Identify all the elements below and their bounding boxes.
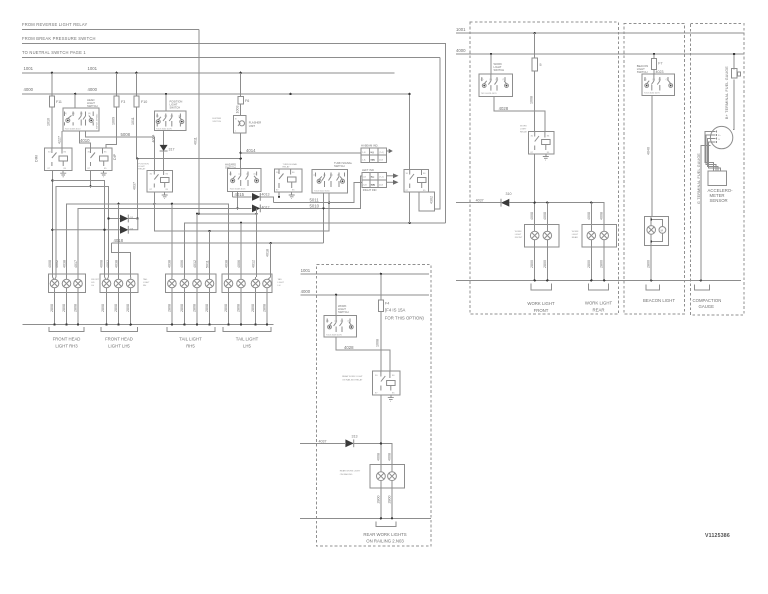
- svg-text:(6): (6): [88, 113, 91, 115]
- svg-text:(2): (2): [335, 321, 338, 323]
- wire 4018 drop group4: [270, 243, 272, 277]
- lamp L2 g1: [62, 277, 71, 288]
- svg-text:(3): (3): [496, 79, 499, 81]
- wire 4227: [61, 131, 63, 148]
- wire 4038 drop group2: [118, 204, 120, 277]
- svg-text:DIM: DIM: [35, 155, 39, 162]
- wire 1010: [51, 107, 53, 148]
- svg-text:REAR WORK LIGHTS: REAR WORK LIGHTS: [363, 532, 406, 537]
- svg-text:GAUGE: GAUGE: [699, 304, 715, 309]
- wire lamp returns 2808 group3: [172, 288, 210, 325]
- wire beacon internal top: [651, 217, 662, 227]
- svg-text:(1): (1): [348, 321, 351, 323]
- switch head light S1 internal pins: [65, 112, 94, 126]
- wire relay K5 output: [409, 192, 411, 223]
- node junction 4038 group3: [171, 203, 173, 205]
- node junction K3 on 4038 line: [153, 203, 155, 205]
- node junctions right ground: [534, 279, 703, 281]
- relay K4 turn signal: [275, 169, 302, 192]
- svg-text:(7-4): (7-4): [379, 177, 384, 179]
- switch position light S2 internal pins: [157, 114, 182, 127]
- diode D9: [52, 219, 137, 234]
- svg-text:2808: 2808: [180, 304, 184, 312]
- svg-text:FLASHER: FLASHER: [249, 121, 261, 125]
- svg-text:TAIL: TAIL: [278, 278, 283, 281]
- svg-text:5: 5: [540, 63, 542, 67]
- svg-text:2808: 2808: [62, 304, 66, 312]
- svg-text:WORK LIGHT: WORK LIGHT: [527, 301, 555, 306]
- svg-text:2808: 2808: [74, 304, 78, 312]
- svg-text:REAR: REAR: [593, 307, 605, 312]
- node junction 4002 tee: [89, 185, 91, 187]
- lamp L7 g3: [168, 277, 177, 288]
- wire 4002 distribution: [56, 186, 109, 277]
- svg-text:RIGHT IND: RIGHT IND: [363, 188, 377, 192]
- diode 317: [160, 145, 175, 152]
- node junction 4037 relay K7: [534, 202, 536, 204]
- svg-text:2808: 2808: [126, 304, 130, 312]
- svg-text:COMPACTION: COMPACTION: [693, 298, 722, 303]
- wire fuse F7 to switch: [653, 70, 655, 74]
- fuse F11: [51, 73, 53, 96]
- connector left right indicator body: [362, 173, 387, 188]
- wire turn switch pin to 5011: [323, 193, 325, 243]
- svg-text:(2): (2): [239, 174, 242, 176]
- svg-text:4037: 4037: [133, 182, 137, 190]
- bracket work light front: [531, 284, 551, 290]
- svg-text:G: G: [718, 139, 720, 141]
- svg-text:2808: 2808: [205, 304, 209, 312]
- fuse F4: [380, 274, 382, 300]
- wire 4028 mid: [336, 337, 390, 371]
- wire F left tail to group2 lamp3: [112, 243, 131, 277]
- node junction 4037 relay wire: [380, 442, 382, 444]
- svg-text:7013 4004 4070: 7013 4004 4070: [156, 128, 173, 130]
- wire bus 4000: [22, 94, 410, 170]
- wire 4037 stub mid: [300, 443, 392, 472]
- node junction 4011 on bus C: [198, 213, 200, 215]
- svg-text:4006: 4006: [237, 260, 241, 268]
- svg-text:F10: F10: [141, 100, 147, 104]
- svg-text:5011: 5011: [310, 198, 320, 203]
- svg-text:7013 4028 4070: 7013 4028 4070: [326, 334, 343, 336]
- svg-text:317: 317: [169, 148, 175, 152]
- svg-text:TO NUETRAL SWITCH PAGE 1: TO NUETRAL SWITCH PAGE 1: [22, 50, 86, 55]
- svg-text:(4): (4): [326, 321, 329, 323]
- svg-text:G TERMINAL FUEL GAUGE: G TERMINAL FUEL GAUGE: [697, 153, 701, 204]
- svg-text:RELAY: RELAY: [283, 165, 291, 168]
- lamp L11 g4: [224, 277, 233, 288]
- svg-text:F7: F7: [658, 62, 662, 66]
- lamp L3 g1: [74, 277, 83, 288]
- relay K4 turn signal label: [283, 163, 298, 169]
- svg-text:SWITCH: SWITCH: [637, 70, 648, 74]
- lamp L12 g4: [237, 277, 246, 288]
- svg-text:HD: HD: [91, 282, 95, 284]
- svg-text:LH: LH: [91, 285, 94, 287]
- svg-text:TAIL: TAIL: [143, 278, 148, 281]
- svg-text:4000: 4000: [88, 87, 98, 92]
- label front hd lh side: [91, 279, 99, 287]
- svg-text:5010: 5010: [310, 204, 320, 209]
- svg-text:4008: 4008: [99, 260, 103, 268]
- svg-text:4013: 4013: [262, 193, 270, 197]
- relay K1 DIM: [35, 148, 73, 170]
- svg-text:2-A: 2-A: [362, 159, 366, 162]
- svg-text:(1): (1): [337, 175, 340, 177]
- svg-text:FOR THIS OPTION): FOR THIS OPTION): [385, 315, 425, 320]
- flasher unit U1 body: [234, 115, 246, 133]
- svg-text:2808: 2808: [167, 304, 171, 312]
- svg-text:2800: 2800: [647, 260, 651, 268]
- svg-text:4008: 4008: [48, 260, 52, 268]
- svg-text:4037: 4037: [476, 199, 484, 203]
- ground relay K2: [101, 173, 107, 177]
- wire ground bus right: [456, 279, 741, 281]
- node junction mid ground b: [391, 517, 393, 519]
- svg-text:4023: 4023: [656, 70, 664, 74]
- svg-text:4302: 4302: [430, 196, 434, 204]
- node junction hazard pin2: [236, 207, 238, 209]
- svg-text:TAIL LIGHT: TAIL LIGHT: [236, 337, 259, 342]
- svg-text:4008: 4008: [543, 212, 547, 220]
- node junction F5 on 1001: [534, 32, 536, 34]
- wire feed work switch R: [490, 54, 492, 74]
- svg-text:ON RAILING: ON RAILING: [340, 473, 353, 476]
- node junction 4037 tap: [136, 158, 138, 160]
- svg-text:4000: 4000: [24, 87, 34, 92]
- lamp L13 g4: [251, 277, 260, 288]
- svg-text:DIP: DIP: [113, 153, 117, 160]
- node junction g3 5011 on E: [208, 230, 210, 232]
- svg-text:(1): (1): [503, 79, 506, 81]
- svg-text:RH5: RH5: [186, 344, 195, 349]
- node junction flasher 1011 feed: [240, 157, 242, 159]
- lamp group 3 box: [166, 274, 216, 292]
- bracket beacon: [646, 285, 660, 291]
- svg-text:LIGHT: LIGHT: [520, 129, 527, 131]
- svg-text:2808: 2808: [101, 304, 105, 312]
- svg-text:(3): (3): [341, 321, 344, 323]
- svg-text:1009: 1009: [111, 117, 115, 125]
- wire 4004: [163, 131, 165, 145]
- ground relay K6: [388, 398, 394, 402]
- wire turn switch pin2 to 5011: [328, 193, 330, 203]
- diode D8: [107, 215, 137, 223]
- wire 1008 mid: [380, 311, 382, 371]
- svg-text:(4): (4): [64, 113, 67, 115]
- node junction head switch on 4000: [74, 93, 76, 95]
- svg-text:2800: 2800: [530, 260, 534, 268]
- svg-text:(0-B: (0-B: [379, 160, 384, 162]
- svg-text:4006: 4006: [180, 260, 184, 268]
- wire 4008 branch to group2: [52, 181, 104, 277]
- svg-text:LIGHT LH5: LIGHT LH5: [108, 344, 130, 349]
- wire 1008 right: [534, 71, 536, 132]
- lamp right indicator glyph: [387, 181, 394, 183]
- svg-text:FRONT: FRONT: [515, 237, 523, 239]
- dashed enclosure work lights: [470, 22, 619, 314]
- node junction beacon bottom: [650, 241, 652, 243]
- relay K7 work light body: [528, 132, 554, 154]
- bracket group3: [167, 327, 215, 331]
- svg-text:(3): (3): [165, 116, 168, 118]
- lamp L15 mid: [377, 472, 386, 481]
- wire gauge to sensor bundle: [705, 132, 714, 172]
- node junction 4014: [240, 152, 242, 154]
- node junction beacon top: [650, 219, 652, 221]
- svg-text:SENSOR: SENSOR: [710, 198, 728, 203]
- svg-text:2808: 2808: [50, 304, 54, 312]
- lamp box work front: [525, 224, 560, 247]
- lamp group 4 box: [222, 274, 272, 292]
- bracket compaction: [695, 285, 710, 291]
- svg-text:SWITCH: SWITCH: [87, 104, 98, 108]
- lamp box work rear: [582, 224, 617, 247]
- svg-text:(4): (4): [314, 175, 317, 177]
- svg-text:FRONT HEAD: FRONT HEAD: [53, 337, 81, 342]
- lamp group 1 box: [48, 274, 85, 292]
- svg-text:WORK LIGHT: WORK LIGHT: [585, 301, 613, 306]
- svg-text:4002: 4002: [106, 260, 110, 268]
- svg-text:313: 313: [352, 435, 358, 439]
- svg-text:4008: 4008: [376, 453, 380, 461]
- wire 4012 drop group4: [256, 208, 258, 277]
- svg-text:(3): (3): [72, 113, 75, 115]
- svg-text:SWITCH: SWITCH: [225, 166, 236, 170]
- lamp L20 work rear b: [600, 231, 609, 240]
- switch work light R body: [479, 74, 513, 96]
- svg-text:8(-): 8(-): [371, 177, 375, 179]
- switch beacon internal pins: [645, 74, 671, 91]
- svg-text:4002: 4002: [55, 260, 59, 268]
- svg-text:4000: 4000: [456, 48, 466, 53]
- svg-text:(0-B: (0-B: [379, 185, 384, 187]
- lamp hi-beam indicator glyph: [387, 150, 389, 152]
- svg-text:7013 4028 4070: 7013 4028 4070: [481, 93, 498, 95]
- svg-text:(2): (2): [652, 79, 655, 81]
- ground relay K3: [162, 195, 168, 199]
- wire feed position switch: [165, 94, 167, 111]
- svg-text:4037: 4037: [319, 439, 327, 443]
- svg-text:7013 4008 4010: 7013 4008 4010: [65, 129, 82, 131]
- relay K3 position body: [147, 170, 172, 192]
- svg-text:4017: 4017: [74, 260, 78, 268]
- lamp L21 beacon: [647, 226, 656, 235]
- lamp L9 g3: [193, 277, 202, 288]
- wire diode to position relay: [163, 151, 165, 170]
- wire 1003: [240, 104, 242, 116]
- svg-text:WIPER SPEED: WIPER SPEED: [97, 113, 99, 129]
- svg-text:4010: 4010: [80, 138, 90, 143]
- svg-text:RH: RH: [143, 285, 147, 287]
- wire feed work switch M: [335, 295, 337, 316]
- svg-text:RELAY: RELAY: [520, 131, 528, 134]
- svg-text:1010: 1010: [47, 118, 51, 126]
- wire relay K2 output 4002: [90, 170, 92, 186]
- svg-text:4008: 4008: [388, 453, 392, 461]
- svg-text:FROM REVERSE LIGHT RELAY: FROM REVERSE LIGHT RELAY: [22, 22, 87, 27]
- node junction 4037 lamp c: [590, 202, 592, 204]
- svg-text:(4): (4): [156, 116, 159, 118]
- svg-text:4004: 4004: [151, 135, 155, 143]
- fuse F5: [534, 33, 536, 58]
- node junction turn relay on 4000: [289, 93, 291, 95]
- svg-text:WORK: WORK: [520, 126, 527, 128]
- dashed enclosure beacon light: [624, 24, 685, 314]
- wire E line: [154, 192, 329, 231]
- wire neutral switch vertical right: [434, 58, 439, 210]
- wire relay K7 coil ground: [545, 154, 547, 156]
- node junction on diode 458 wire: [51, 229, 53, 231]
- svg-text:SWITCH: SWITCH: [494, 68, 505, 72]
- lamp L10 g3: [205, 277, 214, 288]
- svg-text:SWITCH: SWITCH: [338, 310, 349, 314]
- svg-text:REAR: REAR: [572, 236, 578, 239]
- svg-text:4018: 4018: [266, 249, 270, 257]
- svg-text:FRONT: FRONT: [534, 308, 549, 313]
- node junction K4 on 4015 line: [278, 196, 280, 198]
- wire lamp returns right: [535, 240, 605, 281]
- svg-text:LH5: LH5: [243, 344, 251, 349]
- wire lamp returns mid: [381, 481, 392, 519]
- svg-text:8(B): 8(B): [371, 185, 376, 187]
- wire lamp b drop: [546, 203, 548, 232]
- wire gauge feed: [733, 79, 734, 129]
- motor M beacon: [659, 227, 666, 234]
- wire relay K6 coil ground: [390, 395, 392, 398]
- node junction 4302 feed on 4000: [408, 93, 410, 95]
- wire header line 3: [22, 57, 440, 59]
- svg-text:8(-): 8(-): [371, 152, 375, 154]
- lamp L17 work front a: [530, 231, 539, 240]
- svg-text:LIGHT: LIGHT: [515, 234, 522, 236]
- wire header line 1: [22, 29, 199, 31]
- bracket group1: [49, 327, 84, 331]
- wire relay K4 coil ground: [291, 192, 293, 195]
- svg-text:UNIT: UNIT: [249, 124, 256, 128]
- ground relay K4: [289, 195, 295, 199]
- wire 4037 vertical: [136, 159, 138, 219]
- node junction mid ground a: [380, 517, 382, 519]
- svg-text:(1): (1): [254, 174, 257, 176]
- switch position light S2 body: [154, 111, 186, 131]
- svg-text:1001: 1001: [24, 66, 34, 71]
- svg-text:BEACON LIGHT: BEACON LIGHT: [643, 298, 675, 303]
- svg-text:4038: 4038: [62, 260, 66, 268]
- svg-text:SWITCH: SWITCH: [334, 164, 345, 168]
- connector B+ terminal fuel gauge: [731, 69, 737, 78]
- svg-text:(4): (4): [644, 79, 647, 81]
- wire C line 4006: [184, 223, 445, 277]
- svg-text:WORK: WORK: [572, 231, 579, 233]
- svg-text:4028: 4028: [499, 106, 509, 111]
- wire hazard pin to 4015 line: [232, 191, 234, 197]
- dashed enclosure compaction gauge: [691, 24, 745, 315]
- wire ground bus left section: [22, 324, 273, 326]
- wire 5011: [210, 182, 362, 277]
- wire ground line mid: [300, 517, 431, 519]
- diode 4012: [252, 205, 270, 213]
- wire 5008: [86, 131, 155, 170]
- flasher unit U1 detail: [239, 121, 244, 126]
- svg-text:LH: LH: [278, 285, 281, 287]
- svg-text:1-B: 1-B: [363, 177, 367, 179]
- svg-text:5008: 5008: [121, 132, 131, 137]
- svg-text:HI-BEAM IND.: HI-BEAM IND.: [361, 144, 379, 148]
- lamp L16 mid: [388, 472, 397, 481]
- switch work light R internal pins: [482, 74, 507, 91]
- wire 1011: [136, 107, 240, 159]
- node junction F4 feed: [380, 273, 382, 275]
- node junction C right end: [409, 222, 411, 224]
- svg-text:2808: 2808: [251, 304, 255, 312]
- wire relay K7 output: [534, 154, 536, 231]
- svg-text:7013 5010 5011: 7013 5010 5011: [314, 191, 330, 193]
- svg-text:LIGHT: LIGHT: [278, 282, 285, 284]
- wire feed head switch: [74, 94, 76, 108]
- svg-text:SWITCH: SWITCH: [212, 121, 221, 123]
- wire 4015 line: [233, 197, 274, 203]
- wire relay K3 coil to ground: [164, 192, 166, 195]
- wire lamp c drop: [590, 203, 592, 232]
- svg-text:310: 310: [506, 192, 512, 196]
- node junction group4 4012: [255, 207, 257, 209]
- svg-text:7013 4040 4070: 7013 4040 4070: [644, 93, 661, 95]
- svg-text:1008: 1008: [376, 339, 380, 347]
- lamp box rear work mid: [370, 464, 404, 488]
- svg-text:1001: 1001: [456, 27, 466, 32]
- lamp L1 g1 dual: [50, 277, 59, 288]
- fuse F6: [240, 73, 242, 97]
- svg-text:F6: F6: [245, 99, 249, 103]
- svg-text:1008: 1008: [529, 96, 533, 104]
- switch turn signal S4 internal pins: [316, 173, 345, 188]
- svg-text:(1): (1): [666, 79, 669, 81]
- node junction F10 on 1001: [135, 72, 137, 74]
- node junction pin 5010: [322, 207, 324, 209]
- switch head light S1 body: [63, 108, 99, 131]
- lamp L4 g2 dual: [102, 277, 111, 288]
- node junctions on ground bus: [53, 323, 268, 325]
- bracket group4: [223, 327, 271, 331]
- svg-text:7013 3048 4015: 7013 3048 4015: [230, 189, 247, 191]
- svg-text:2800: 2800: [587, 260, 591, 268]
- wire F line 4018: [112, 242, 324, 244]
- wire 4040: [651, 96, 653, 217]
- diode 313: [345, 439, 353, 447]
- svg-text:F11: F11: [56, 100, 62, 104]
- fuse F3: [116, 73, 118, 96]
- svg-text:4038: 4038: [114, 260, 118, 268]
- svg-text:ON RAILING 2.N03: ON RAILING 2.N03: [366, 539, 404, 544]
- wire G terminal down: [701, 146, 711, 281]
- svg-text:2(-B: 2(-B: [363, 185, 368, 187]
- svg-text:(4): (4): [229, 174, 232, 176]
- wire 1001 stub mid box: [301, 273, 429, 275]
- node junction 4037 diode D9: [136, 217, 138, 219]
- gauge compaction circle: [710, 126, 732, 148]
- connector hi-beam indicator body: [361, 148, 386, 163]
- wire header line 2: [22, 44, 445, 223]
- svg-text:BUZZER: BUZZER: [212, 118, 221, 120]
- wire B line 4012 tails: [197, 213, 257, 215]
- svg-text:FRONT HEAD: FRONT HEAD: [105, 337, 133, 342]
- svg-text:1003: 1003: [236, 106, 240, 114]
- connector 4302 body: [419, 192, 434, 211]
- switch hazard S3 body: [227, 168, 261, 191]
- svg-text:(6): (6): [179, 116, 182, 118]
